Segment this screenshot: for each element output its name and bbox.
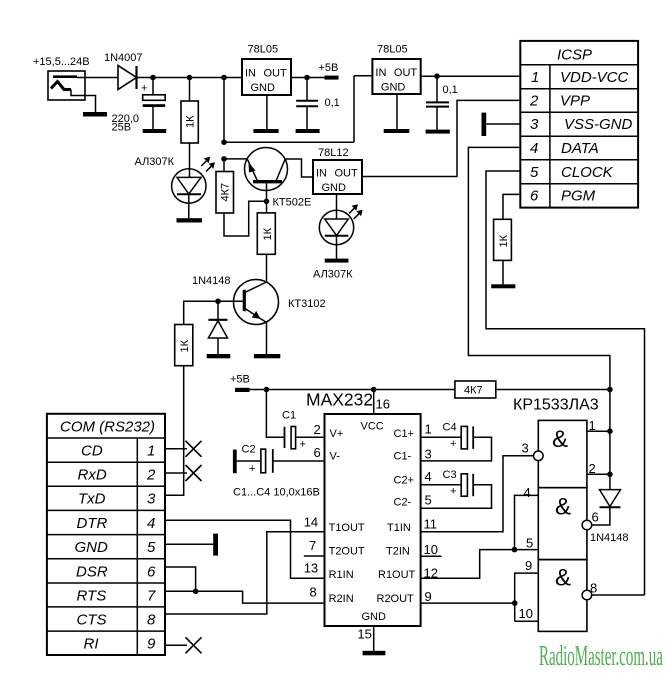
output bubble pin8 (gate3): [582, 590, 592, 600]
svg-text:6: 6: [314, 445, 321, 460]
node pin9-10: [512, 600, 518, 606]
ground (cap 220): [143, 129, 167, 133]
svg-text:4: 4: [524, 485, 531, 500]
capacitor C2: [237, 449, 325, 475]
svg-text:1: 1: [589, 418, 596, 433]
svg-text:КТ3102: КТ3102: [288, 298, 326, 310]
svg-text:ICSP: ICSP: [557, 47, 592, 64]
svg-text:14: 14: [304, 515, 318, 530]
connector table COM (RS232): [47, 414, 165, 655]
svg-text:DATA: DATA: [561, 140, 599, 157]
svg-text:6: 6: [530, 188, 539, 205]
svg-text:6: 6: [147, 564, 156, 581]
wire 78L05#2 OUT to ICSP pin1: [421, 75, 521, 77]
wire jack to diode: [77, 77, 118, 79]
svg-text:+5В: +5В: [319, 62, 339, 74]
output bubble pin6 (gate2): [582, 520, 592, 530]
svg-text:VDD-VCC: VDD-VCC: [560, 69, 629, 86]
svg-text:78L05: 78L05: [377, 44, 408, 56]
svg-text:3: 3: [147, 491, 156, 508]
wire 78L05#1 GND pin: [266, 95, 268, 129]
no-connect X (RI): [186, 637, 202, 653]
svg-text:8: 8: [590, 581, 597, 596]
ground (78L05#2): [384, 129, 410, 133]
svg-text:TxD: TxD: [78, 491, 106, 508]
ground (COM GND): [213, 534, 218, 556]
no-connect X (RxD): [186, 465, 202, 481]
capacitor C1: [266, 390, 324, 451]
output bubble pin3 (gate1): [534, 451, 544, 461]
wire 78L05#1 OUT to +5V: [291, 77, 327, 79]
node +5V-C1: [264, 387, 270, 393]
wire ICSP pin5 CLOCK: [486, 171, 645, 595]
wire gate3 output to CLOCK: [592, 594, 645, 596]
svg-text:IN: IN: [245, 68, 256, 80]
wire DTR to R1IN: [165, 520, 325, 578]
node DATA-4K7: [607, 387, 613, 393]
wire ICSP pin4 DATA: [468, 147, 610, 389]
svg-text:R1OUT: R1OUT: [378, 569, 416, 581]
svg-text:4: 4: [425, 469, 432, 484]
diode 1N4007: [118, 66, 137, 90]
resistor 4K7 #1: [216, 159, 267, 236]
watermark RadioMaster.com.ua: [539, 640, 663, 671]
wire ICSP pin3 to ground bar: [486, 123, 520, 125]
svg-text:GND: GND: [381, 82, 406, 94]
svg-text:8: 8: [310, 585, 317, 600]
svg-text:+: +: [450, 486, 456, 498]
svg-text:1К: 1К: [179, 339, 191, 352]
svg-text:+: +: [249, 463, 255, 475]
svg-text:OUT: OUT: [264, 68, 288, 80]
svg-text:КТ502Е: КТ502Е: [273, 197, 312, 209]
wire MAX232 pin15 GND: [373, 626, 375, 651]
NAND gate 2 (KR1533LA3): [538, 488, 587, 560]
svg-text:C2: C2: [242, 444, 256, 456]
svg-text:+15,5...24В: +15,5...24В: [33, 56, 90, 68]
ground (MAX232): [363, 651, 386, 656]
svg-text:АЛ307К: АЛ307К: [313, 269, 353, 281]
IC MAX232: [306, 390, 421, 627]
wire VCC pin16: [373, 390, 375, 415]
svg-text:7: 7: [309, 538, 316, 553]
svg-text:C2+: C2+: [394, 475, 415, 487]
svg-text:11: 11: [424, 517, 438, 532]
svg-text:R1IN: R1IN: [329, 569, 354, 581]
svg-text:3: 3: [522, 441, 529, 456]
svg-text:GND: GND: [251, 82, 276, 94]
svg-text:RTS: RTS: [77, 588, 107, 605]
svg-text:1К: 1К: [185, 115, 197, 128]
svg-text:IN: IN: [375, 67, 386, 79]
wire 1K to LED1: [189, 143, 191, 177]
svg-text:0,1: 0,1: [443, 84, 458, 96]
capacitor 0,1 #1: [296, 78, 318, 130]
svg-text:T1IN: T1IN: [387, 522, 411, 534]
wire KT3102 emitter: [266, 323, 268, 355]
voltage regulator 78L05 #1: [242, 59, 291, 95]
svg-text:6: 6: [592, 510, 599, 525]
connector table ICSP: [520, 41, 638, 208]
svg-text:1: 1: [147, 443, 155, 460]
wire DATA node down: [609, 390, 611, 475]
node out-cap: [304, 75, 310, 81]
svg-text:MAX232: MAX232: [306, 390, 373, 410]
svg-text:COM (RS232): COM (RS232): [60, 419, 155, 436]
power jack input connector: [48, 71, 96, 112]
svg-text:R2IN: R2IN: [329, 593, 354, 605]
svg-text:25В: 25В: [112, 122, 132, 134]
svg-text:5: 5: [425, 493, 432, 508]
wire CTS to T1OUT: [165, 532, 325, 614]
svg-text:1N4148: 1N4148: [590, 532, 629, 544]
svg-text:T1OUT: T1OUT: [329, 522, 365, 534]
wire RI stub: [165, 644, 187, 646]
terminal +5V #1: [325, 76, 339, 80]
svg-text:5: 5: [147, 539, 156, 556]
diode 1N4148 #1: [208, 301, 227, 354]
svg-text:4: 4: [147, 515, 155, 532]
svg-text:C3: C3: [443, 469, 457, 481]
svg-text:1N4148: 1N4148: [192, 275, 231, 287]
svg-text:78L05: 78L05: [248, 44, 279, 56]
svg-text:КР1533ЛА3: КР1533ЛА3: [513, 397, 599, 414]
svg-text:9: 9: [525, 558, 532, 573]
svg-text:CLOCK: CLOCK: [561, 164, 614, 181]
svg-text:1: 1: [531, 69, 539, 86]
wire +5V rail to MAX232 VCC and 4K7: [249, 389, 455, 391]
wire gate3 pin10: [515, 620, 539, 622]
svg-text:1: 1: [425, 422, 432, 437]
ground (C2): [233, 450, 237, 474]
svg-text:CTS: CTS: [77, 612, 107, 629]
wire gate1 pin2: [587, 473, 610, 475]
svg-text:RxD: RxD: [78, 467, 107, 484]
svg-text:+: +: [450, 438, 456, 450]
svg-text:1К: 1К: [498, 234, 510, 247]
svg-text:+5В: +5В: [230, 374, 250, 386]
node rail-branch: [221, 75, 227, 81]
svg-text:4К7: 4К7: [220, 183, 232, 202]
wire diode to regulator rail: [137, 77, 243, 79]
svg-text:V+: V+: [330, 428, 344, 440]
LED AL307K #2: [319, 210, 353, 258]
svg-text:1К: 1К: [262, 227, 274, 240]
wire DSR to RTS: [165, 567, 196, 591]
svg-text:10: 10: [519, 606, 533, 621]
svg-text:0,1: 0,1: [325, 97, 340, 109]
svg-text:15: 15: [357, 627, 371, 642]
node vdd-cap: [434, 73, 440, 79]
LED AL307K #1: [172, 169, 206, 218]
terminal +5V #2: [235, 388, 250, 392]
ground (LED1): [177, 218, 203, 222]
svg-text:C1-: C1-: [394, 451, 412, 463]
node branch-emitter: [221, 156, 227, 162]
ground (LED2): [325, 259, 349, 263]
svg-text:5: 5: [526, 536, 533, 551]
wire 78L12 GND to LED2: [336, 194, 338, 219]
resistor 1K (base KT502E): [257, 201, 275, 254]
wire T2IN stub: [421, 555, 442, 557]
svg-text:OUT: OUT: [335, 168, 359, 180]
transistor KT502E (PNP): [245, 148, 288, 202]
svg-text:DSR: DSR: [76, 564, 108, 581]
capacitor C4: [421, 426, 492, 461]
wire R1OUT to gate2 inputs: [421, 550, 539, 579]
svg-text:C1: C1: [282, 410, 296, 422]
wire KT3102 collector: [266, 254, 268, 282]
svg-text:АЛ307К: АЛ307К: [135, 156, 175, 168]
ground (power jack): [83, 112, 107, 117]
node DSR-RTS: [193, 589, 199, 595]
svg-text:PGM: PGM: [561, 188, 596, 205]
node pin4-5: [512, 547, 518, 553]
svg-text:CD: CD: [81, 443, 103, 460]
node rail-cap220: [150, 75, 156, 81]
svg-text:1N4007: 1N4007: [104, 52, 143, 64]
svg-text:C1+: C1+: [394, 428, 415, 440]
node rail-1K: [187, 75, 193, 81]
svg-text:7: 7: [147, 588, 156, 605]
wire CD stub: [165, 448, 187, 450]
svg-text:2: 2: [146, 467, 156, 484]
svg-text:+: +: [141, 83, 147, 95]
ground (1N4148#1): [207, 354, 231, 358]
resistor 4K7 #2: [455, 381, 610, 398]
capacitor C3: [421, 474, 492, 509]
NAND gate 3 (KR1533LA3): [538, 560, 587, 632]
svg-text:4К7: 4К7: [464, 385, 483, 397]
svg-text:16: 16: [376, 397, 390, 412]
wire RTS to R2IN: [165, 591, 325, 603]
svg-text:GND: GND: [362, 611, 387, 623]
ground (1K PGM): [491, 284, 515, 288]
svg-text:+: +: [300, 439, 306, 451]
svg-text:VCC: VCC: [361, 421, 384, 433]
resistor 1K (TxD): [165, 301, 218, 495]
svg-text:GND: GND: [75, 539, 109, 556]
svg-text:IN: IN: [316, 168, 327, 180]
svg-text:C4: C4: [443, 422, 457, 434]
no-connect X (CD): [186, 441, 202, 457]
svg-text:&: &: [552, 426, 568, 453]
LED1 emission arrows: [201, 157, 215, 172]
svg-text:3: 3: [530, 116, 539, 133]
wire RxD stub: [165, 472, 187, 474]
ground (KT3102 emitter): [254, 354, 280, 358]
wire gate1 output to T1IN: [421, 456, 534, 532]
transistor KT3102 (NPN): [234, 280, 279, 325]
node base KT3102: [215, 299, 221, 305]
svg-text:&: &: [555, 565, 571, 592]
wire 78L12 OUT to VPP: [362, 100, 520, 176]
svg-text:9: 9: [425, 589, 432, 604]
ground (78L05#1): [253, 129, 278, 133]
node branch-down: [221, 139, 227, 145]
svg-text:3: 3: [425, 447, 432, 462]
wire emitter KT502E: [224, 158, 248, 160]
svg-text:DTR: DTR: [77, 515, 108, 532]
wire collector KT502E to 78L12: [285, 159, 313, 177]
NAND gate 1 (KR1533LA3): [538, 420, 587, 487]
resistor 1K (LED1): [181, 78, 198, 144]
wire ICSP pin6 PGM: [503, 194, 520, 219]
svg-text:2: 2: [529, 93, 539, 110]
wire T2OUT stub: [304, 555, 325, 557]
wire gate3 pin9: [515, 573, 539, 621]
wire GND COM pin5: [165, 543, 213, 545]
svg-text:5: 5: [530, 164, 539, 181]
svg-text:2: 2: [314, 422, 321, 437]
svg-text:10: 10: [424, 542, 438, 557]
diode 1N4148 #2: [592, 474, 621, 525]
svg-text:2: 2: [589, 461, 596, 476]
ground (cap 0,1 #1): [296, 129, 320, 133]
svg-text:T2IN: T2IN: [386, 546, 410, 558]
wire T1IN vertical from gate1 done above; wire R2OUT to gate3: [421, 602, 515, 604]
svg-text:13: 13: [304, 561, 318, 576]
wire gate1 pin1: [587, 430, 610, 432]
node VCC: [371, 387, 377, 393]
svg-text:OUT: OUT: [394, 67, 418, 79]
svg-text:78L12: 78L12: [318, 147, 349, 159]
wire 78L05#2 GND pin: [396, 94, 398, 129]
svg-text:R2OUT: R2OUT: [377, 593, 415, 605]
wire branch rail down and right to 78L05#2: [224, 76, 372, 142]
node pin2: [607, 472, 613, 478]
node base KT502E: [264, 199, 270, 205]
svg-text:V-: V-: [330, 451, 341, 463]
svg-text:C1...C4 10,0x16В: C1...C4 10,0x16В: [233, 487, 320, 499]
capacitor 220,0 25V electrolytic: [141, 78, 165, 130]
svg-text:VPP: VPP: [560, 93, 590, 110]
voltage regulator 78L12: [313, 160, 362, 194]
LED2 emission arrows: [349, 204, 363, 219]
svg-text:8: 8: [147, 612, 156, 629]
svg-text:RI: RI: [84, 636, 99, 653]
svg-text:GND: GND: [322, 182, 347, 194]
svg-text:4: 4: [530, 140, 538, 157]
svg-text:9: 9: [147, 636, 156, 653]
svg-text:T2OUT: T2OUT: [329, 546, 365, 558]
wire gate2 pin4: [515, 495, 539, 549]
ground (cap 0,1 #2): [426, 130, 450, 134]
wire KT3102 base: [218, 300, 243, 302]
ground (ICSP VSS): [482, 113, 487, 136]
capacitor 0,1 #2: [426, 76, 449, 129]
svg-text:C2-: C2-: [394, 497, 412, 509]
svg-text:RadioMaster.com.ua: RadioMaster.com.ua: [539, 640, 663, 671]
svg-text:&: &: [555, 494, 571, 521]
svg-text:VSS-GND: VSS-GND: [564, 116, 633, 133]
resistor 1K (PGM): [494, 219, 512, 284]
voltage regulator 78L05 #2: [372, 59, 420, 94]
node pin1: [607, 428, 613, 434]
